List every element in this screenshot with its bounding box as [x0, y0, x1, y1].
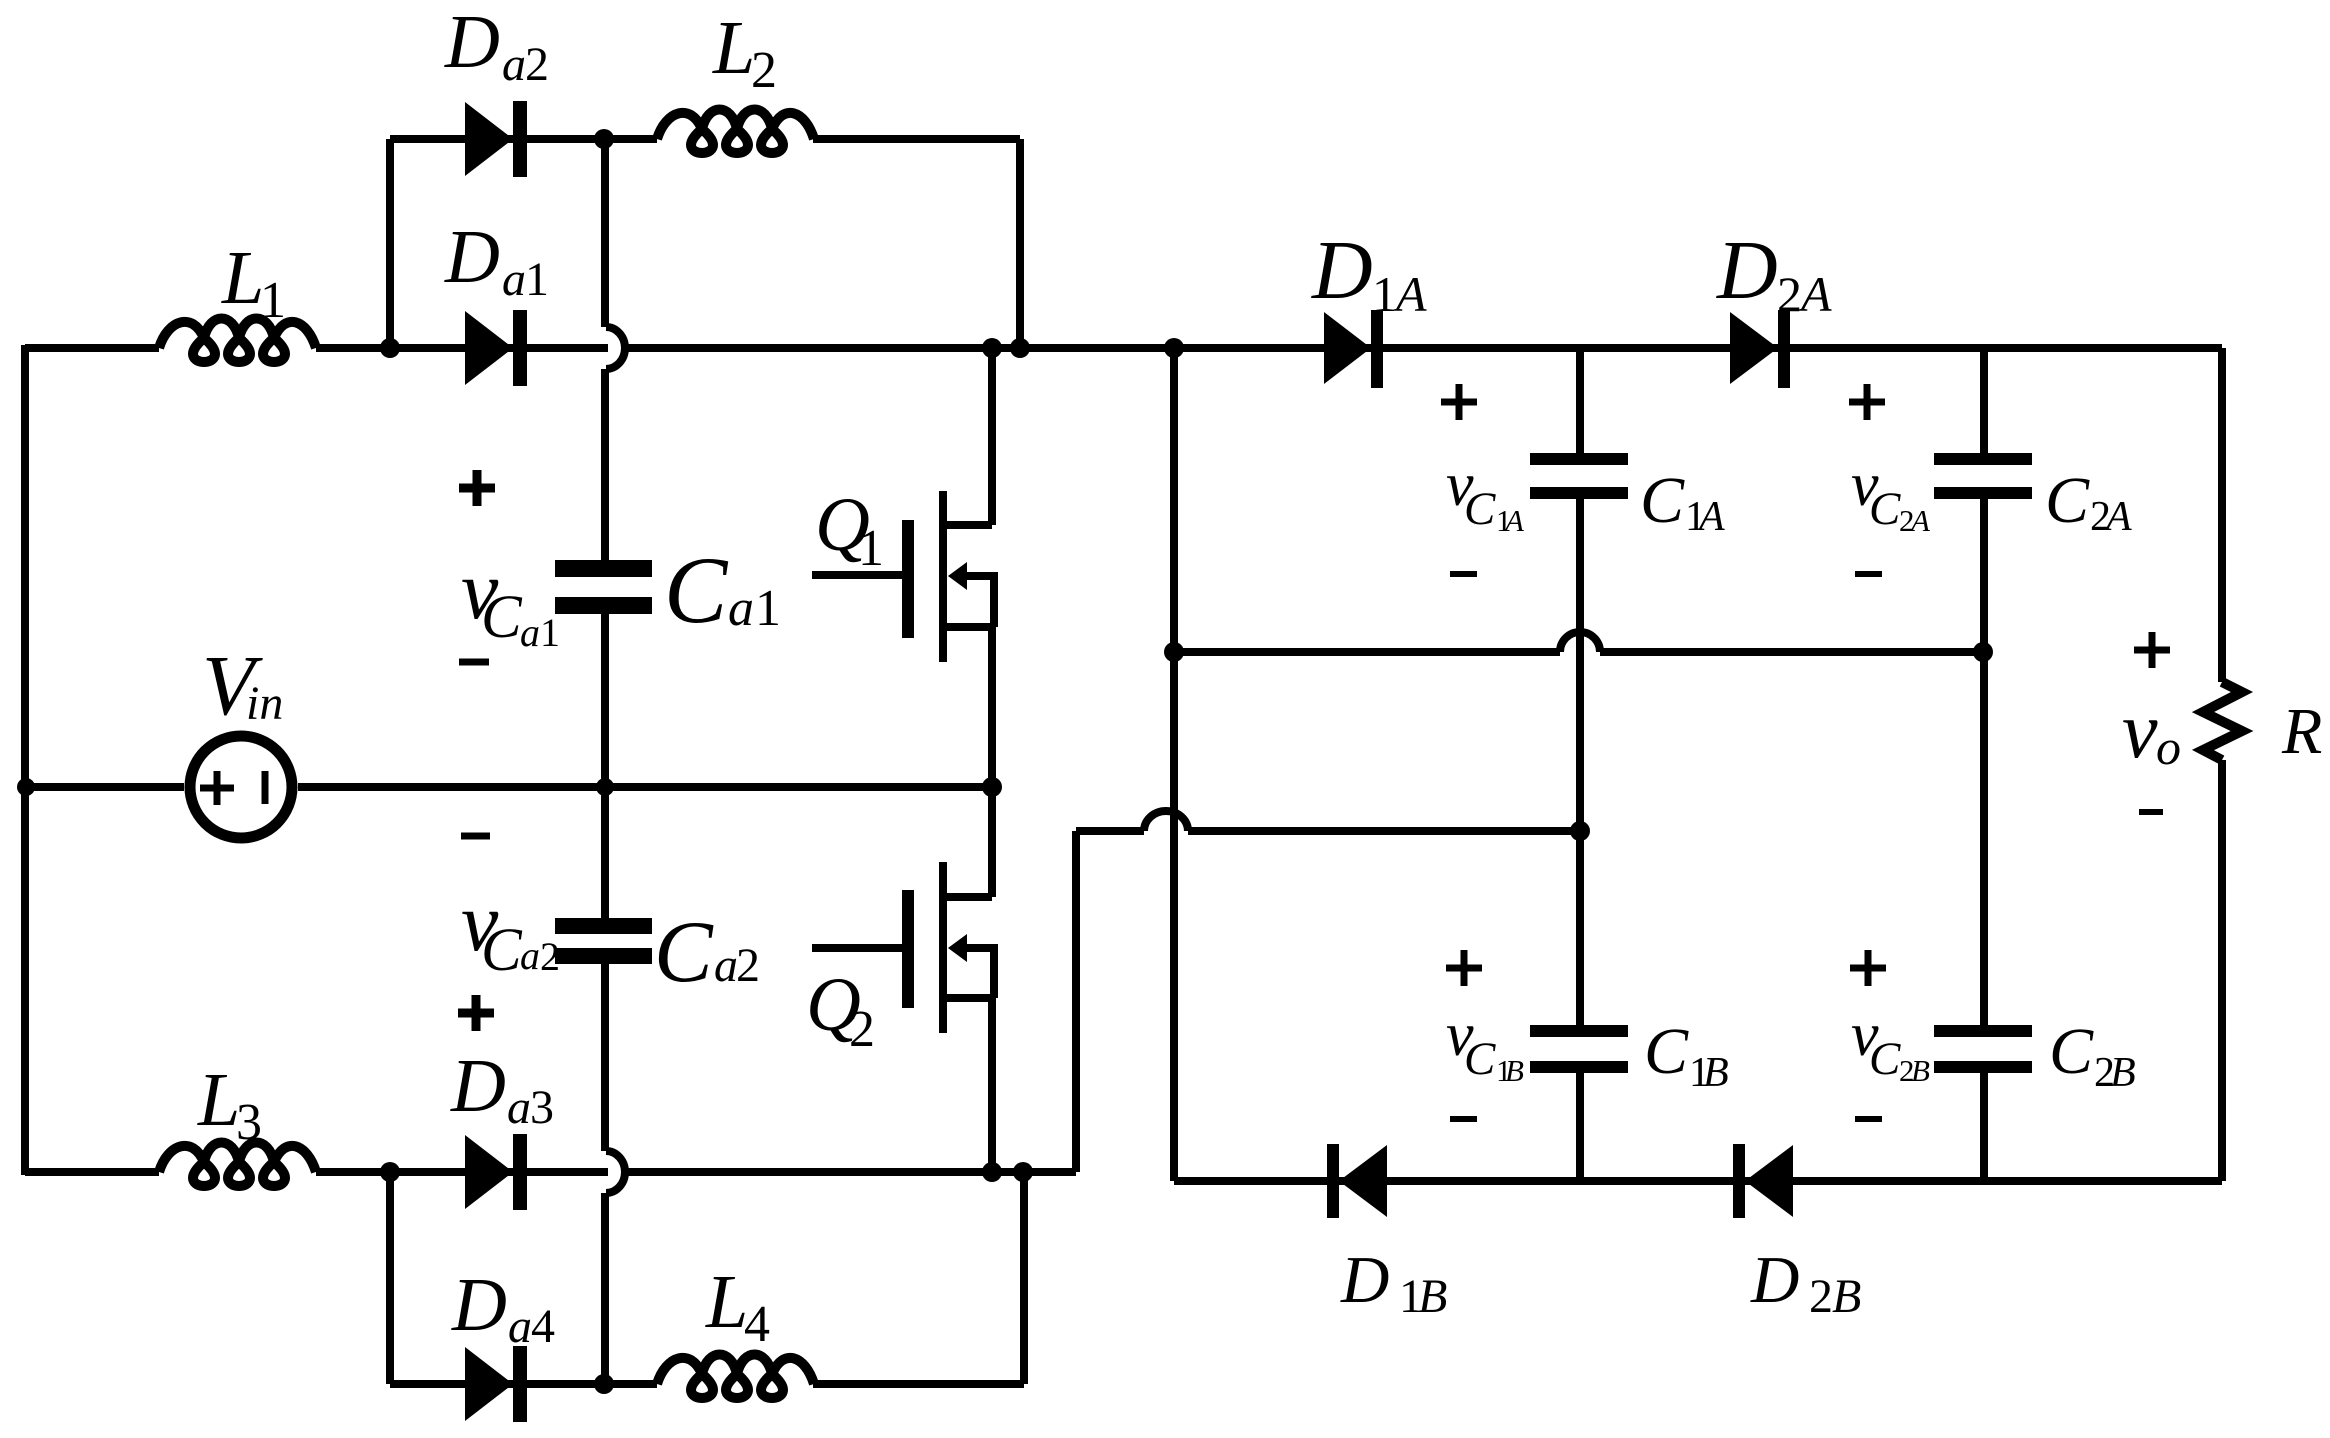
svg-text:2: 2	[849, 1001, 875, 1058]
svg-text:C: C	[1464, 483, 1496, 535]
svg-text:a: a	[728, 580, 754, 637]
svg-text:a: a	[502, 253, 526, 306]
svg-text:2: 2	[1777, 266, 1802, 322]
svg-text:a: a	[714, 939, 738, 992]
svg-text:4: 4	[744, 1296, 770, 1353]
svg-text:D: D	[450, 1044, 506, 1128]
svg-text:C: C	[2045, 464, 2090, 537]
svg-text:B: B	[2110, 1050, 2136, 1096]
svg-text:D: D	[1750, 1243, 1799, 1317]
svg-text:D: D	[1340, 1243, 1389, 1317]
svg-text:v: v	[2122, 687, 2158, 775]
svg-text:1: 1	[858, 520, 884, 577]
svg-text:B: B	[1703, 1050, 1729, 1096]
svg-text:A: A	[1696, 494, 1725, 540]
svg-text:D: D	[451, 1263, 507, 1347]
svg-text:1: 1	[525, 253, 549, 306]
svg-text:1: 1	[755, 580, 781, 637]
svg-text:A: A	[1503, 503, 1525, 538]
svg-text:C: C	[481, 917, 523, 984]
svg-text:a: a	[507, 1081, 531, 1134]
svg-text:2: 2	[540, 934, 560, 979]
svg-text:B: B	[1832, 1270, 1861, 1323]
svg-text:C: C	[2049, 1015, 2094, 1088]
svg-text:C: C	[664, 537, 729, 643]
svg-text:L: L	[705, 1260, 748, 1344]
svg-text:B: B	[1911, 1053, 1930, 1088]
svg-text:2: 2	[1809, 1270, 1833, 1323]
svg-text:2: 2	[751, 42, 777, 99]
svg-text:C: C	[481, 584, 523, 651]
svg-text:4: 4	[531, 1300, 555, 1353]
svg-text:D: D	[444, 0, 500, 84]
svg-text:3: 3	[530, 1081, 554, 1134]
svg-text:1: 1	[540, 610, 560, 655]
svg-text:C: C	[1464, 1033, 1496, 1085]
svg-text:A: A	[1393, 266, 1427, 322]
svg-text:1: 1	[1372, 266, 1397, 322]
svg-text:2: 2	[736, 939, 760, 992]
svg-text:B: B	[1418, 1270, 1447, 1323]
svg-text:A: A	[1798, 266, 1832, 322]
svg-text:a: a	[520, 933, 540, 978]
svg-text:a: a	[520, 610, 540, 655]
svg-text:in: in	[246, 677, 283, 730]
svg-text:L: L	[712, 6, 755, 90]
svg-text:C: C	[1869, 1033, 1901, 1085]
svg-text:1: 1	[260, 272, 286, 329]
svg-text:o: o	[2156, 719, 2181, 775]
svg-text:A: A	[2103, 494, 2132, 540]
svg-text:B: B	[1505, 1053, 1524, 1088]
svg-text:C: C	[1640, 464, 1685, 537]
svg-text:a: a	[508, 1300, 532, 1353]
svg-text:3: 3	[236, 1094, 262, 1151]
svg-text:C: C	[1869, 483, 1901, 535]
svg-text:D: D	[444, 215, 500, 299]
svg-text:a: a	[502, 38, 526, 91]
svg-text:D: D	[1716, 224, 1778, 317]
svg-text:L: L	[221, 236, 264, 320]
svg-text:L: L	[197, 1058, 240, 1142]
svg-text:D: D	[1311, 224, 1373, 317]
svg-text:C: C	[654, 904, 714, 1001]
svg-text:R: R	[2281, 695, 2322, 768]
svg-text:2: 2	[525, 38, 549, 91]
svg-text:C: C	[1644, 1015, 1689, 1088]
svg-text:A: A	[1909, 503, 1931, 538]
